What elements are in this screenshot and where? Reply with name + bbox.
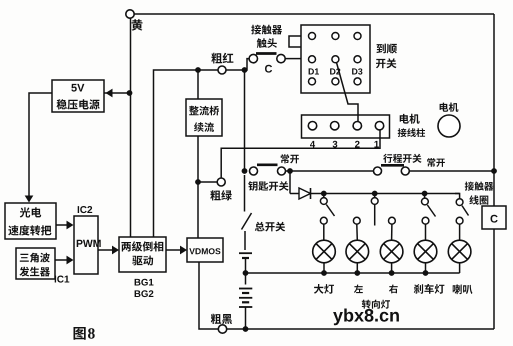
wire lamp bus xyxy=(290,193,460,195)
lamp 刹车灯 xyxy=(414,224,437,273)
wire thick-red bus xyxy=(154,70,245,237)
reversing switch box 到顺开关 xyxy=(301,25,370,93)
wire 粗绿 to motor terminal 1 xyxy=(221,129,380,178)
PWM box U-IC2 xyxy=(74,216,101,274)
5V regulated supply box xyxy=(52,80,104,112)
wire travel switch to coil xyxy=(409,170,494,172)
label 钥匙开关 xyxy=(248,181,288,191)
jumper loop on switch xyxy=(289,36,301,47)
label 接触器 (contact) xyxy=(251,25,282,35)
diode xyxy=(299,188,311,199)
lamp 喇叭 xyxy=(448,224,471,273)
wire right border (to contactor coil) xyxy=(493,14,495,171)
lamp 左 xyxy=(346,224,369,273)
arrow throttle to PWM xyxy=(56,221,74,230)
caption 图8 xyxy=(74,327,95,340)
label BG2 xyxy=(135,290,154,297)
label 行程开关 xyxy=(383,154,422,163)
contactor contact bar xyxy=(256,52,277,55)
wire contact to switch box xyxy=(285,58,301,60)
wire left vertical from 黄 to driver xyxy=(130,18,132,237)
arrow PWM to driver xyxy=(98,246,119,255)
junction to 5V supply xyxy=(127,90,133,96)
wire arrow into 5V box xyxy=(104,89,130,98)
labels 4 3 2 1 xyxy=(310,141,379,148)
travel switch bar xyxy=(381,164,404,167)
turn-signal selector xyxy=(353,194,395,226)
wire coil lower / right border xyxy=(493,229,495,329)
wire to main switch xyxy=(244,175,246,212)
rectifier-bridge freewheel box xyxy=(186,99,222,136)
junction headlight xyxy=(321,191,327,197)
headlight switch xyxy=(320,194,334,225)
wire switch to battery xyxy=(244,231,246,250)
wire riser to contactor contact xyxy=(245,59,250,70)
key switch bar 常开 xyxy=(257,164,278,167)
wire key switch to travel switch xyxy=(286,170,374,172)
junction brake-light xyxy=(422,191,428,197)
label 触头 xyxy=(257,38,277,48)
wire top bus xyxy=(134,13,494,15)
wire 5V to throttle xyxy=(25,93,52,203)
wire battery link 2 xyxy=(245,273,247,285)
wire lamp-bus drop xyxy=(289,171,291,194)
wire lamp return bus xyxy=(246,272,460,274)
arrow driver to VDMOS xyxy=(166,246,187,255)
terminal 粗绿 xyxy=(210,178,232,201)
main switch blade 总开关 xyxy=(242,213,286,232)
wire VDMOS to ground bus xyxy=(199,262,494,329)
key switch contact left xyxy=(250,167,258,175)
label 转向灯 xyxy=(362,300,390,309)
horn switch xyxy=(456,199,468,224)
lamp return junctions xyxy=(321,270,428,276)
two-stage inverting driver box xyxy=(119,237,166,272)
horn feed corner xyxy=(455,194,460,199)
motor symbol xyxy=(438,103,460,138)
terminal 粗黑 xyxy=(211,314,232,333)
motor terminal block box xyxy=(302,115,390,138)
travel switch left xyxy=(374,167,382,175)
watermark ybx8.cn xyxy=(333,309,399,326)
lamp 右 xyxy=(380,224,403,273)
wire rectifier vertical xyxy=(197,70,199,99)
wire coil upper xyxy=(493,171,495,206)
label 电机接线柱 xyxy=(398,114,425,137)
wire to 粗绿 terminal xyxy=(198,181,217,183)
terminal 粗红 xyxy=(218,66,226,74)
junction turn-signal xyxy=(372,191,378,197)
contactor contact right xyxy=(277,54,285,62)
wire battery link xyxy=(245,258,247,273)
battery lower cells xyxy=(239,289,252,308)
label BG1 xyxy=(135,279,154,286)
brake switch xyxy=(422,194,436,225)
travel switch right xyxy=(401,167,409,175)
junction 粗绿 xyxy=(195,179,201,185)
arrow triangle-gen to PWM xyxy=(55,256,74,265)
label C contact xyxy=(265,65,272,73)
wire battery to ground bus xyxy=(245,307,247,329)
key switch contact right xyxy=(278,167,286,175)
junction key switch xyxy=(242,168,248,174)
label IC1 xyxy=(55,276,70,283)
labels D1 D2 D3 xyxy=(309,68,363,74)
lamp labels xyxy=(314,284,473,294)
terminal block contacts xyxy=(308,122,383,130)
junction lamp return xyxy=(243,270,249,276)
contactor coil box C xyxy=(482,206,506,229)
terminal 黄 (yellow lead) xyxy=(126,10,143,31)
label 粗红 xyxy=(211,53,233,64)
wire rectifier to VDMOS xyxy=(197,136,199,238)
junction contactor coil xyxy=(491,168,497,174)
junction key-switch drop xyxy=(242,67,248,73)
junction lamp-bus drop xyxy=(287,168,293,174)
battery upper cell xyxy=(239,253,252,258)
lamp 大灯 xyxy=(313,224,336,273)
label 常开 right xyxy=(427,158,445,167)
junction ground bus xyxy=(243,326,249,332)
wire key-switch drop xyxy=(244,70,246,171)
wire D2 to motor terminal 2 xyxy=(337,63,359,122)
label 到顺开关 xyxy=(376,44,397,69)
junction rectifier drop xyxy=(195,67,201,73)
label IC2 xyxy=(78,206,93,213)
label 常开 left xyxy=(281,154,299,163)
reversing switch contacts 3x3 xyxy=(309,33,362,85)
VDMOS box xyxy=(187,238,223,262)
photo speed throttle box xyxy=(5,203,56,239)
label 接触器线圈 xyxy=(465,182,494,205)
contactor contact left xyxy=(249,54,257,62)
triangle wave generator box xyxy=(16,248,55,279)
